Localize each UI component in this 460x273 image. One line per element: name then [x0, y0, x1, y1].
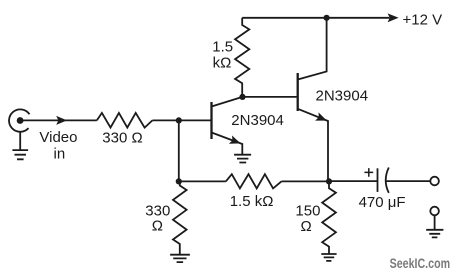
Q1 emitter arrowhead — [229, 136, 241, 144]
svg-text:150: 150 — [295, 203, 320, 220]
svg-text:1.5: 1.5 — [212, 39, 233, 56]
svg-text:SeekIC.com: SeekIC.com — [390, 256, 451, 271]
svg-text:Ω: Ω — [152, 217, 163, 234]
svg-text:Ω: Ω — [301, 218, 312, 235]
Q2 emitter — [298, 109, 328, 182]
Q2 collector — [298, 18, 327, 80]
arrowhead +12V — [388, 13, 399, 22]
resistor R2 1.5 kohm (collector load, vertical) — [235, 18, 249, 97]
svg-text:1.5 kΩ: 1.5 kΩ — [230, 193, 274, 210]
node: top rail junction — [324, 15, 330, 21]
wire: Q1 collector node to Q2 base — [243, 96, 297, 98]
svg-text:2N3904: 2N3904 — [231, 112, 284, 129]
ground (R3) — [170, 255, 190, 262]
BNC center pin dot — [17, 117, 24, 124]
svg-text:in: in — [54, 145, 66, 162]
capacitor C1 right plate (curved) — [386, 168, 389, 193]
wire: output node to capacitor — [329, 180, 378, 182]
output return terminal circle (bottom) — [430, 207, 439, 216]
resistor R3 330 ohm (vertical to ground) — [173, 181, 187, 254]
svg-text:Video: Video — [39, 129, 77, 146]
capacitor C1 left plate — [377, 168, 379, 192]
wire: input node down to bottom rail — [178, 120, 180, 181]
svg-text:470 μF: 470 μF — [359, 194, 406, 211]
arrowhead on input wire — [56, 116, 67, 125]
wire: input to resistor R1 — [22, 119, 97, 121]
svg-text:+12 V: +12 V — [403, 12, 443, 29]
node: input junction — [176, 117, 182, 123]
output terminal circle (top) — [430, 177, 439, 186]
Q1 collector — [212, 97, 243, 107]
ground (Q1 emitter) — [234, 155, 251, 163]
ground (R5) — [321, 254, 336, 261]
wire: R1 to Q1 base — [152, 119, 210, 121]
bottom rail right segment — [281, 180, 329, 182]
node: bottom left junction — [176, 178, 182, 184]
ground (input connector) — [12, 132, 28, 160]
top rail to +12V — [242, 17, 389, 19]
svg-text:kΩ: kΩ — [213, 55, 232, 72]
Q1 emitter — [212, 133, 243, 155]
node: Q1 collector junction — [239, 94, 245, 100]
node: output junction — [326, 178, 332, 184]
resistor R4 1.5 kohm (feedback, horizontal) — [226, 174, 282, 188]
svg-text:2N3904: 2N3904 — [316, 88, 369, 105]
transistor Q2 bar — [297, 73, 299, 111]
resistor R5 150 ohm (vertical to ground) — [322, 181, 336, 254]
transistor Q1 bar — [210, 102, 212, 139]
BNC connector J1 (video input) — [9, 109, 29, 131]
bottom rail left segment — [179, 180, 226, 182]
Q2 emitter arrowhead — [315, 112, 327, 120]
wire: capacitor to output terminal — [385, 180, 430, 182]
plus sign of C1 — [364, 168, 373, 177]
ground (output return) — [426, 215, 443, 237]
svg-text:330 Ω: 330 Ω — [102, 130, 142, 147]
resistor R1 330 ohm (series input) — [97, 113, 153, 128]
